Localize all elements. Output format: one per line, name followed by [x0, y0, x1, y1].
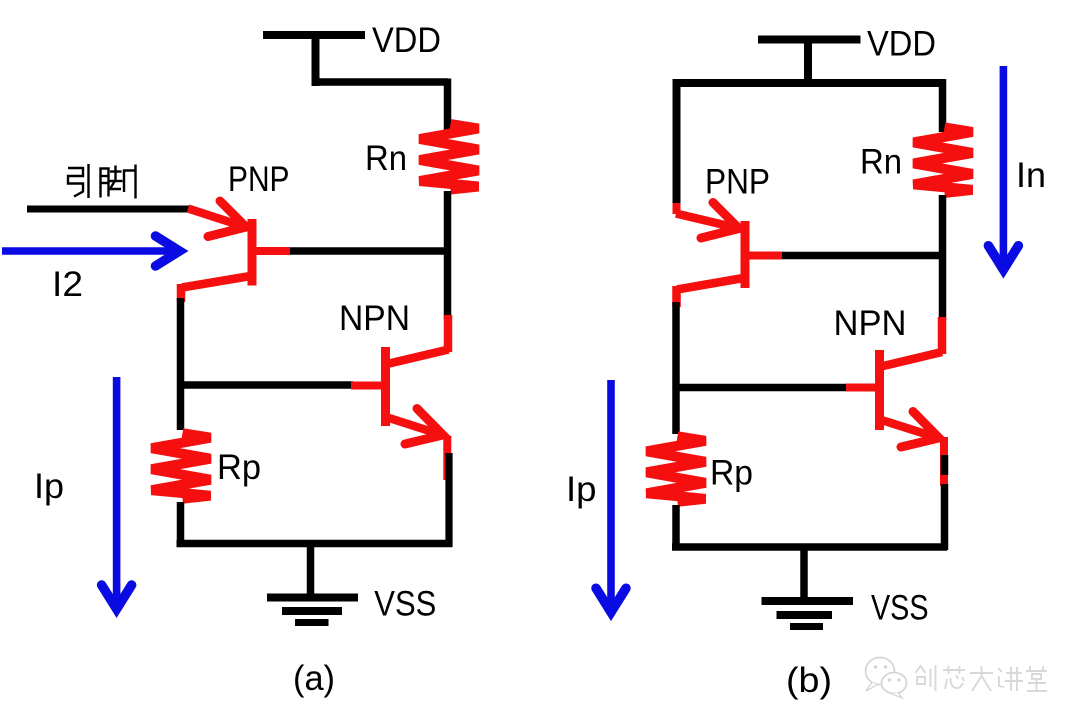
wire top rail (b): [673, 79, 943, 87]
wire left branch top (b): [673, 79, 681, 211]
transistor Q2 NPN (a) emitter lead: [443, 436, 451, 480]
watermark text 创芯大讲堂: [916, 665, 1048, 691]
transistor Q4 NPN (b) emitter lead: [940, 437, 948, 486]
wire NPN base horizontal (a): [180, 381, 353, 389]
svg-text:Rn: Rn: [365, 139, 407, 178]
current arrow In: [988, 66, 1018, 270]
transistor Q1 PNP (a) emitter: [188, 209, 242, 227]
svg-text:VSS: VSS: [871, 589, 929, 628]
svg-text:VDD: VDD: [372, 21, 441, 60]
svg-text:I2: I2: [52, 265, 83, 304]
transistor Q3 PNP (b) collector: [677, 278, 744, 307]
wire right branch upper (a): [444, 79, 452, 131]
current arrow Ip (a): [102, 377, 132, 609]
wire left branch lower (a): [177, 502, 185, 547]
transistor Q2 NPN (a) base bar: [381, 347, 390, 426]
transistor Q4 NPN (b) collector: [881, 317, 942, 367]
transistor Q4 NPN (b) emitter arrowhead: [901, 412, 939, 448]
power symbol VDD (b) stem: [804, 40, 812, 88]
svg-text:NPN: NPN: [834, 304, 907, 343]
current arrow Ip (b): [596, 380, 626, 612]
svg-text:PNP: PNP: [228, 160, 290, 199]
wire right branch lower upper-part (b): [941, 455, 949, 475]
svg-text:(a): (a): [293, 659, 335, 698]
transistor Q3 PNP (b) emitter arrowhead: [701, 203, 739, 239]
wire bottom rail (b): [672, 543, 947, 551]
wire bottom rail (a): [177, 540, 453, 548]
transistor Q3 PNP (b) emitter: [676, 214, 735, 228]
ground stem (b): [800, 547, 808, 603]
transistor Q1 PNP (a) base stub: [253, 247, 290, 255]
wire right branch middle (a): [444, 191, 452, 319]
transistor Q3 PNP (b) emitter overlap: [673, 203, 681, 214]
transistor Q3 PNP (b) base bar: [741, 221, 750, 288]
wire right branch lower (b): [941, 484, 949, 550]
svg-text:VSS: VSS: [374, 585, 436, 624]
power symbol VDD (b) bar: [758, 36, 861, 44]
transistor Q4 NPN (b) base stub: [846, 384, 877, 392]
watermark logo bubbles: [866, 658, 907, 699]
label pin 引脚: [68, 164, 136, 199]
wire top rail (a): [312, 78, 449, 86]
current arrow I2: [2, 236, 180, 266]
ground symbol (a): [267, 598, 358, 623]
pin line (a): [27, 206, 190, 213]
wire right branch lower (a): [445, 453, 452, 547]
svg-text:In: In: [1016, 156, 1046, 195]
transistor Q4 NPN (b) emitter: [882, 420, 936, 437]
svg-text:Rp: Rp: [217, 448, 261, 487]
wire right branch upper (b): [939, 79, 947, 132]
wire base node horizontal (b): [779, 252, 946, 260]
transistor Q1 PNP (a) base bar: [248, 219, 257, 286]
power symbol VDD (a) bar: [263, 31, 365, 39]
transistor Q1 PNP (a) emitter arrowhead: [208, 201, 246, 237]
resistor Rn (a): [420, 124, 479, 190]
wire left branch middle (b): [672, 302, 680, 434]
wire base node horizontal (a): [285, 247, 451, 255]
svg-text:NPN: NPN: [339, 299, 410, 338]
svg-text:Rn: Rn: [860, 143, 902, 182]
transistor Q1 PNP (a) collector: [181, 276, 251, 302]
transistor Q4 NPN (b) base bar: [875, 350, 884, 430]
resistor Rp (a): [152, 433, 211, 499]
svg-text:(b): (b): [786, 661, 832, 700]
svg-text:PNP: PNP: [705, 163, 770, 202]
power symbol VDD (a) stem: [312, 35, 320, 86]
svg-text:Ip: Ip: [566, 470, 597, 509]
wire left branch upper (a): [177, 298, 185, 430]
resistor Rp (b): [647, 436, 706, 502]
transistor Q2 NPN (a) emitter arrowhead: [405, 409, 443, 445]
svg-text:Rp: Rp: [710, 454, 753, 493]
resistor Rn (b): [914, 127, 973, 192]
transistor Q2 NPN (a) base stub: [351, 382, 383, 390]
ground symbol (b): [762, 601, 854, 627]
transistor Q2 NPN (a) emitter: [388, 418, 440, 435]
transistor Q3 PNP (b) base stub: [746, 252, 782, 260]
svg-text:VDD: VDD: [867, 25, 936, 64]
wire right branch middle (b): [939, 195, 947, 320]
ground stem (a): [307, 543, 315, 599]
transistor Q2 NPN (a) collector: [387, 315, 449, 364]
svg-text:Ip: Ip: [34, 467, 64, 506]
wire left branch lower (b): [672, 505, 680, 550]
wire NPN base horizontal (b): [676, 384, 849, 392]
